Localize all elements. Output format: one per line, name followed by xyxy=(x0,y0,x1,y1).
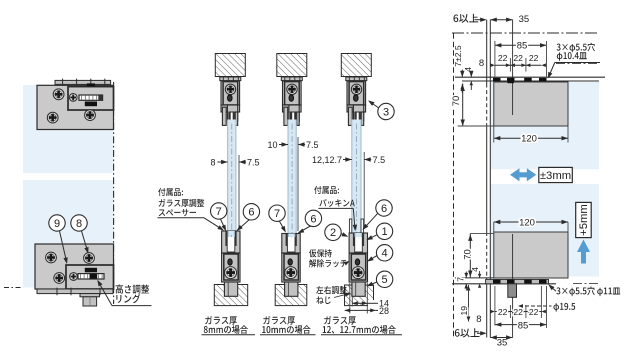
dim 22s bottom xyxy=(495,311,542,313)
screw xyxy=(53,89,64,100)
jaw right leg xyxy=(361,112,364,125)
clamp inner box xyxy=(351,254,365,280)
extension line u1 xyxy=(238,155,240,229)
latch label xyxy=(309,249,332,257)
dim 120 lower xyxy=(494,221,568,223)
screw xyxy=(84,253,95,264)
clamp lower neck xyxy=(347,105,366,112)
mounting strip xyxy=(220,77,241,81)
dim 10 / 7.5 u2 xyxy=(279,144,288,146)
top clamp inner box xyxy=(223,82,238,105)
right view: glass panel background upper xyxy=(491,82,599,169)
jaw slot xyxy=(290,112,295,125)
dim 85 bottom xyxy=(495,324,547,326)
glass pane strip xyxy=(288,120,296,238)
dim 28 u3 xyxy=(345,308,351,312)
svg-text:1: 1 xyxy=(381,226,387,238)
ceiling hatched block xyxy=(341,54,371,77)
leader 3 xyxy=(370,102,379,108)
packing strips xyxy=(286,234,288,247)
foot stem xyxy=(285,282,298,296)
top clamp inner box xyxy=(349,82,364,105)
floor hatched block u1 xyxy=(214,285,247,306)
label glass 8mm xyxy=(205,316,237,325)
svg-text:8: 8 xyxy=(479,58,484,69)
left view: glass door panel lower part xyxy=(23,180,113,288)
hole label bottom xyxy=(556,287,620,297)
break dash line bottom left xyxy=(4,287,23,289)
svg-text:85: 85 xyxy=(518,320,529,331)
jaw right leg xyxy=(297,112,300,125)
spacer label xyxy=(158,188,183,196)
top clamp body xyxy=(283,81,302,105)
svg-text:8: 8 xyxy=(210,157,215,167)
leader 6 u1 xyxy=(238,220,249,230)
screw center line upper xyxy=(512,20,514,115)
jaw slot bottom xyxy=(287,234,295,253)
+5mm box xyxy=(576,202,592,237)
label glass 10mm xyxy=(263,316,295,325)
screw xyxy=(85,110,96,121)
svg-text:85: 85 xyxy=(517,41,528,52)
jaw block xyxy=(353,105,363,121)
svg-text:6: 6 xyxy=(310,213,316,225)
leader 5 xyxy=(368,282,377,286)
left tab xyxy=(284,107,288,125)
svg-text:4: 4 xyxy=(382,248,388,260)
leader 2 xyxy=(341,234,346,236)
gauge slot bottom xyxy=(78,274,104,279)
dim 6ijou bottom xyxy=(455,328,480,337)
gauge black block xyxy=(85,102,97,107)
dim 70 upper xyxy=(462,84,464,127)
svg-text:8: 8 xyxy=(476,314,481,325)
clamp screw xyxy=(351,84,361,94)
gauge center line top xyxy=(90,79,92,95)
svg-text:19: 19 xyxy=(459,306,469,316)
mounting strip xyxy=(346,77,367,81)
dim 120 upper xyxy=(494,137,568,139)
adjust sub-plate bottom xyxy=(66,265,114,289)
svg-text:7.5: 7.5 xyxy=(247,157,260,167)
leader 4 xyxy=(369,256,377,261)
bottom rail with screws xyxy=(486,279,549,283)
label glass 12mm xyxy=(324,316,356,325)
svg-text:28: 28 xyxy=(379,306,389,316)
wall center dash-dot right bottom xyxy=(573,283,599,285)
svg-text:7: 7 xyxy=(216,206,222,218)
svg-text:4: 4 xyxy=(470,267,480,272)
+-3mm arrow xyxy=(510,168,536,181)
ceiling line xyxy=(455,76,605,78)
clamp screw xyxy=(285,267,297,279)
bottom clamp jaw xyxy=(222,231,240,253)
dim 14 u3 xyxy=(351,297,353,307)
svg-text:5: 5 xyxy=(382,274,388,286)
circled 7 u2 xyxy=(269,205,285,221)
black pointer bottom xyxy=(85,268,97,273)
dim 70 lower xyxy=(469,233,471,278)
wall lines vertical xyxy=(486,20,488,84)
glass pane strip xyxy=(288,234,294,238)
ceiling hatched block xyxy=(277,54,307,77)
circled 4 xyxy=(376,245,392,261)
packing strips xyxy=(225,231,227,246)
svg-text:6: 6 xyxy=(248,207,254,219)
height adjusting stem xyxy=(80,294,100,297)
ceiling hatched block xyxy=(215,54,245,77)
svg-text:70: 70 xyxy=(451,96,462,107)
bottom clamp body xyxy=(282,253,300,282)
latch oval xyxy=(354,95,359,102)
leader 1 xyxy=(368,235,377,240)
clamp screw xyxy=(352,267,364,279)
left tab xyxy=(348,107,352,125)
extension line u2 xyxy=(297,137,299,231)
svg-text:35: 35 xyxy=(497,338,508,349)
leader 9 xyxy=(60,231,67,262)
glass pane strip xyxy=(228,120,236,238)
svg-text:22: 22 xyxy=(498,307,508,317)
leader 6 u3 xyxy=(364,213,378,228)
+5mm arrow xyxy=(577,240,590,264)
glass center line xyxy=(231,124,233,238)
packing strips xyxy=(353,233,355,246)
latch oval xyxy=(228,95,233,102)
packing lines u3 xyxy=(349,219,351,233)
packing label xyxy=(314,186,339,194)
pivot cylinder xyxy=(508,284,517,298)
wall center dash-dot top xyxy=(452,32,599,34)
leader 8 xyxy=(82,231,88,251)
svg-text:7: 7 xyxy=(274,208,280,220)
svg-text:120: 120 xyxy=(521,134,537,145)
clamp inner box xyxy=(224,254,238,280)
bottom rail bar xyxy=(37,289,113,294)
clamp screw xyxy=(225,267,237,279)
wall center dash-dot right top xyxy=(556,63,599,65)
right view: glass panel background lower xyxy=(491,184,599,277)
top rail bar xyxy=(55,80,111,84)
latch oval xyxy=(355,259,359,265)
svg-text:22: 22 xyxy=(529,53,539,63)
circled 8 xyxy=(71,215,87,231)
jaw block xyxy=(289,105,299,121)
dim 22s top xyxy=(495,64,542,66)
latch oval xyxy=(289,95,294,102)
mounting plate bottom (side) xyxy=(35,244,114,289)
black pointer top xyxy=(87,83,95,86)
+-3mm box xyxy=(539,167,573,182)
top clamp body xyxy=(347,81,366,105)
svg-text:120: 120 xyxy=(519,217,535,228)
bottom clamp jaw xyxy=(282,234,300,254)
dim 12,12.7 / 7.5 u3 xyxy=(343,159,352,161)
svg-text:12,12.7: 12,12.7 xyxy=(312,155,342,165)
mounting plate (fixed) lower xyxy=(494,232,568,278)
bottom clamp jaw xyxy=(349,233,367,253)
svg-text:7.5: 7.5 xyxy=(306,140,319,150)
lr screw label xyxy=(316,286,347,294)
dim 85 top xyxy=(495,44,547,46)
circled 5 xyxy=(376,271,392,287)
svg-text:22: 22 xyxy=(513,307,523,317)
ext line for 70/120 upper xyxy=(458,125,495,127)
glass center line xyxy=(357,236,359,238)
dim 35 top xyxy=(490,19,512,21)
glass pane strip xyxy=(352,120,361,234)
mounting strip xyxy=(281,77,302,81)
top strip line xyxy=(462,80,599,82)
screw center line lower xyxy=(512,234,514,338)
clamp lower neck xyxy=(283,105,302,112)
screw xyxy=(47,112,58,123)
small screw xyxy=(70,273,78,281)
clamp inner box xyxy=(284,254,298,280)
leader 7 u1 xyxy=(221,219,226,230)
svg-text:8: 8 xyxy=(76,218,82,230)
circled 7 u1 xyxy=(211,203,227,219)
circled 1 xyxy=(376,223,392,239)
svg-text:±3mm: ±3mm xyxy=(540,170,571,182)
svg-text:7: 7 xyxy=(456,277,466,282)
mounting plate (fixed) upper xyxy=(494,82,568,126)
jaw slot bottom xyxy=(227,231,235,252)
clamp screw xyxy=(287,84,297,94)
floor hatched block u3 xyxy=(345,285,374,306)
svg-text:9: 9 xyxy=(54,218,60,230)
gauge slot xyxy=(79,95,103,100)
clamp screw xyxy=(225,84,235,94)
screw xyxy=(54,273,65,284)
svg-text:3: 3 xyxy=(383,106,389,118)
clamp lower neck xyxy=(221,105,240,112)
jaw right leg xyxy=(235,112,238,125)
small screw xyxy=(69,94,77,102)
svg-text:35: 35 xyxy=(519,14,530,25)
top clamp inner box xyxy=(285,82,300,105)
screw xyxy=(46,252,57,263)
left view: glass door panel upper part xyxy=(23,85,113,173)
circled 9 xyxy=(49,215,65,231)
svg-text:22: 22 xyxy=(513,53,523,63)
bottom clamp body xyxy=(349,253,367,282)
svg-text:22: 22 xyxy=(529,307,539,317)
dim 35 bottom xyxy=(490,337,512,339)
svg-text:70: 70 xyxy=(462,249,473,260)
dim 19 xyxy=(468,285,470,322)
circled 6 u1 xyxy=(243,204,259,220)
leader 6 u2 xyxy=(299,226,311,232)
mounting plate top (side) xyxy=(37,85,114,129)
foot stem xyxy=(352,282,365,296)
latch oval xyxy=(228,259,232,265)
circled 2 xyxy=(325,224,341,240)
top clamp body xyxy=(221,81,240,105)
floor hatched block u2 xyxy=(275,285,307,306)
glass center line xyxy=(291,236,293,239)
latch oval xyxy=(288,259,292,265)
jaw slot xyxy=(229,112,234,125)
dim phi19.5 xyxy=(553,303,575,312)
circled 6 u3 xyxy=(376,200,392,216)
svg-text:+5mm: +5mm xyxy=(578,204,590,236)
glass center line xyxy=(230,235,232,237)
dim 8 / 7.5 u1 xyxy=(218,161,228,163)
glass center line xyxy=(355,124,357,234)
extension line u3 xyxy=(363,152,365,229)
ext lines 85 top xyxy=(494,41,496,77)
left tab xyxy=(222,107,226,125)
jaw block xyxy=(227,105,237,121)
hinge axis dash-dot line xyxy=(113,82,115,304)
jaw slot xyxy=(355,112,360,125)
circled 6 u2 xyxy=(305,210,321,226)
svg-text:7±2.5: 7±2.5 xyxy=(453,45,463,67)
foot stem xyxy=(224,282,237,296)
svg-text:6: 6 xyxy=(381,203,387,215)
adjust sub-plate top xyxy=(68,87,114,110)
svg-text:2: 2 xyxy=(330,227,336,239)
svg-text:7.5: 7.5 xyxy=(373,155,386,165)
glass pane strip xyxy=(228,231,234,237)
floor lines xyxy=(455,277,494,279)
svg-text:22: 22 xyxy=(498,53,508,63)
glass center line xyxy=(291,124,293,238)
circled 3 xyxy=(378,103,394,119)
glass pane strip xyxy=(355,233,362,237)
dashed edge line left xyxy=(453,33,455,337)
label takasa chousei ring xyxy=(116,285,150,294)
leader 7 u2 xyxy=(279,221,285,231)
bottom clamp body xyxy=(222,253,240,282)
screw heads top rail xyxy=(493,78,501,81)
svg-text:10: 10 xyxy=(267,140,277,150)
hole label top xyxy=(557,43,595,53)
dim 6ijou top xyxy=(454,14,479,23)
jaw slot bottom xyxy=(355,233,363,252)
